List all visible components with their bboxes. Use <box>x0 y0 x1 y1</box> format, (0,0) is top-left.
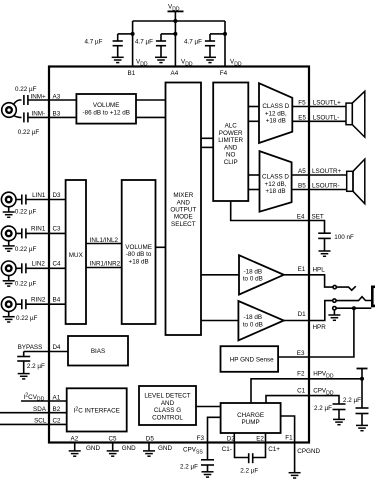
svg-text:SDA: SDA <box>33 406 47 413</box>
svg-text:E5: E5 <box>298 114 306 121</box>
connector J5 RIN2 jack inner <box>6 301 12 307</box>
svg-text:F2: F2 <box>297 370 305 377</box>
ground at LIN2 <box>3 275 15 286</box>
svg-text:A1: A1 <box>53 394 61 401</box>
svg-text:+12 dB,: +12 dB, <box>265 181 287 188</box>
wire CHARGE PUMP to pin E2 <box>265 433 267 443</box>
wire SDA / pin B2 <box>0 412 67 414</box>
ground at LIN1 <box>3 207 15 218</box>
wire MIXER to HP amp R <box>201 320 238 322</box>
svg-text:HP GND Sense: HP GND Sense <box>230 357 274 364</box>
ground at A4 cap <box>155 57 167 62</box>
wire J1 to INM+ cap <box>14 100 22 105</box>
label CLASSD1 text <box>262 103 289 125</box>
svg-text:A3: A3 <box>53 93 61 100</box>
svg-text:MODE: MODE <box>174 214 193 221</box>
wire tip switch <box>336 286 355 290</box>
svg-text:-18 dB: -18 dB <box>244 314 263 321</box>
capacitor 0.22uF RIN1 <box>22 228 26 238</box>
ground at B1 cap <box>112 57 124 62</box>
wire RIN1 / pin C3 <box>16 232 66 234</box>
svg-text:SELECT: SELECT <box>171 221 196 228</box>
amplifier HPR <box>238 301 283 340</box>
svg-text:NO: NO <box>226 152 236 159</box>
wire INL1/INL2 <box>86 243 122 245</box>
svg-text:C3: C3 <box>53 226 62 233</box>
label MIXER text <box>170 192 196 228</box>
wire INM+ / pin A3 <box>28 99 77 101</box>
capacitor 2.2uF CPVSS <box>201 460 214 472</box>
block MIXER <box>166 83 202 336</box>
label CLASSD2 text <box>262 174 289 196</box>
svg-text:C5: C5 <box>109 436 118 443</box>
connector J4 LIN2 jack outer <box>1 261 16 276</box>
wire pin F4 drop <box>224 21 226 67</box>
wire pin B1 drop <box>132 21 134 67</box>
block ALC <box>213 83 248 202</box>
svg-text:-80 dB to: -80 dB to <box>126 251 152 258</box>
label VOLUME1 text <box>82 102 129 117</box>
svg-text:LEVEL DETECT: LEVEL DETECT <box>144 393 190 400</box>
wire ALC to pin E4 SET <box>231 201 309 221</box>
svg-text:4.7 µF: 4.7 µF <box>135 39 153 46</box>
wire ALC to CLASSD2 lower <box>248 189 259 191</box>
ground at bypass cap <box>18 374 30 379</box>
capacitor 100nF <box>318 233 331 251</box>
wire CHARGE PUMP to pin F1 <box>281 416 295 443</box>
contact circle ring <box>333 299 336 302</box>
wire CPVDD external <box>309 396 339 404</box>
ground at C5 <box>107 451 119 456</box>
capacitor 2.2uF CPVDD <box>333 404 346 419</box>
connector J1 INM jack inner <box>6 107 12 113</box>
svg-text:2.2 µF: 2.2 µF <box>240 468 258 475</box>
wire HPR to jack ring contact <box>309 301 333 321</box>
svg-text:LSOUTL-: LSOUTL- <box>313 114 340 121</box>
contact circle sleeve <box>333 307 336 310</box>
svg-text:INL1/INL2: INL1/INL2 <box>90 237 119 244</box>
wire VOLUME2 to MIXER <box>156 246 166 248</box>
junction dot rail center <box>173 19 177 23</box>
label ALC text <box>218 123 243 166</box>
svg-text:0.22 µF: 0.22 µF <box>15 208 37 215</box>
wire sleeve to jack <box>336 307 371 309</box>
svg-text:CHARGE: CHARGE <box>237 412 264 419</box>
label HPL amp text <box>243 269 263 283</box>
capacitor 2.2uF bypass <box>17 352 30 374</box>
block VOLUME2 <box>122 180 156 324</box>
connector J2 LIN1 jack outer <box>1 192 16 207</box>
wire BYPASS / pin D4 <box>24 351 68 353</box>
svg-text:4.7 µF: 4.7 µF <box>85 39 103 46</box>
svg-text:CLASS D: CLASS D <box>262 103 289 110</box>
svg-text:A4: A4 <box>171 70 179 77</box>
svg-text:INM-: INM- <box>32 111 46 118</box>
svg-text:C1+: C1+ <box>268 446 280 453</box>
wire MIXER to ALC lower <box>201 146 213 148</box>
svg-text:GND: GND <box>122 445 136 452</box>
capacitor 0.22uF LIN1 <box>22 195 26 205</box>
svg-text:INR1/INR2: INR1/INR2 <box>90 261 121 268</box>
svg-text:B3: B3 <box>53 111 61 118</box>
svg-text:F4: F4 <box>220 70 228 77</box>
svg-text:HPL: HPL <box>313 267 326 274</box>
svg-text:MUX: MUX <box>69 252 84 259</box>
label CHARGE PUMP text <box>237 412 264 426</box>
ground at CPGND <box>289 473 301 478</box>
wire ALC to CLASSD1 lower <box>248 120 259 122</box>
supply bar HPVDD <box>357 369 368 379</box>
capacitor 2.2uF HPVDD <box>356 379 369 426</box>
wire LIN1 / pin D3 <box>16 199 66 201</box>
wire ALC to CLASSD1 upper <box>248 106 259 108</box>
svg-text:CONTROL: CONTROL <box>152 414 183 421</box>
wire pin C5 ground stub <box>112 443 114 451</box>
svg-text:2.2 µF: 2.2 µF <box>314 405 332 412</box>
svg-text:VOLUME: VOLUME <box>93 102 120 109</box>
wire SET to cap <box>309 221 325 234</box>
svg-text:C2: C2 <box>53 418 62 425</box>
svg-text:100 nF: 100 nF <box>334 234 354 241</box>
svg-text:PUMP: PUMP <box>241 419 259 426</box>
svg-text:VOLUME: VOLUME <box>125 244 152 251</box>
wire pin D5 ground stub <box>148 443 150 451</box>
wire I2CVDD / pin A1 <box>21 400 67 402</box>
wire pin E1 <box>284 274 309 276</box>
label HPR amp text <box>243 314 263 328</box>
svg-text:E2: E2 <box>256 436 264 443</box>
wire HP GND Sense to E3 <box>278 356 309 358</box>
svg-text:F5: F5 <box>298 100 306 107</box>
ground at F4 cap <box>204 57 216 62</box>
wire J1 to INM- cap <box>14 116 22 118</box>
wire CHARGE PUMP to pin F3 <box>208 417 221 442</box>
svg-text:AND: AND <box>224 144 238 151</box>
capacitor 4.7uF at B1 <box>113 34 133 57</box>
wire LEVEL DETECT to CHARGE PUMP <box>196 406 221 408</box>
svg-text:D2: D2 <box>227 436 236 443</box>
svg-text:HPVDD: HPVDD <box>313 370 334 379</box>
ground at RIN2 <box>3 311 15 322</box>
wire MIXER to HP amp L <box>201 274 239 276</box>
svg-text:CPGND: CPGND <box>297 448 320 455</box>
wire pin F2 HPVDD internal <box>251 379 309 403</box>
capacitor 4.7uF at F4 <box>205 34 225 57</box>
svg-text:0.22 µF: 0.22 µF <box>15 86 37 93</box>
svg-text:LIMITER: LIMITER <box>218 137 243 144</box>
svg-text:+18 dB: +18 dB <box>266 118 286 125</box>
svg-text:F1: F1 <box>285 434 293 441</box>
block BIAS <box>68 336 128 366</box>
svg-text:D1: D1 <box>298 311 307 318</box>
capacitor 0.22uF LIN2 <box>22 263 26 273</box>
svg-text:B2: B2 <box>53 406 61 413</box>
svg-text:OUTPUT: OUTPUT <box>170 207 196 214</box>
svg-text:C1-: C1- <box>222 446 232 453</box>
junction dot sleeve return <box>352 306 356 310</box>
wire pin F1 external <box>294 443 296 473</box>
contact circle tip <box>333 285 336 288</box>
svg-text:I2C INTERFACE: I2C INTERFACE <box>74 406 120 414</box>
svg-text:AND: AND <box>161 400 175 407</box>
wire HPL to jack tip contact <box>309 275 333 287</box>
wire ALC to CLASSD2 upper <box>248 174 259 176</box>
wire LIN2 / pin C4 <box>16 267 66 269</box>
chip boundary <box>49 67 309 443</box>
svg-text:CLIP: CLIP <box>224 159 238 166</box>
wire CHARGE PUMP to pin D2 <box>233 433 235 443</box>
ground at sleeve contact <box>328 310 340 320</box>
ground at RIN1 <box>3 240 15 251</box>
wire pin F5 <box>292 106 346 108</box>
svg-text:INM+: INM+ <box>31 93 47 100</box>
svg-text:0.22 µF: 0.22 µF <box>16 315 38 322</box>
svg-text:A5: A5 <box>298 168 306 175</box>
capacitor 0.22uF INM+ <box>24 95 28 105</box>
ground at 100nF <box>319 251 331 256</box>
wire ring switch <box>336 297 371 301</box>
block MUX <box>66 180 86 324</box>
amplifier CLASSD1 trapezoid <box>259 83 292 143</box>
svg-text:RIN1: RIN1 <box>31 226 46 233</box>
ground at CPVDD cap <box>333 419 345 424</box>
wire pin E2 to fly cap <box>253 443 266 458</box>
svg-text:-18 dB: -18 dB <box>244 269 263 276</box>
wire pin E5 <box>292 120 346 122</box>
svg-text:SET: SET <box>312 214 324 221</box>
svg-text:C4: C4 <box>53 261 62 268</box>
svg-text:4.7 µF: 4.7 µF <box>184 39 202 46</box>
capacitor 0.22uF INM- <box>24 112 28 122</box>
connector J3 RIN1 jack inner <box>6 231 12 237</box>
wire HPVDD external <box>309 378 362 380</box>
svg-text:AND: AND <box>177 199 191 206</box>
svg-text:RIN2: RIN2 <box>31 297 46 304</box>
svg-text:GND: GND <box>158 445 172 452</box>
svg-text:+18 dB: +18 dB <box>265 188 285 195</box>
svg-text:CLASS G: CLASS G <box>154 407 181 414</box>
svg-text:LIN2: LIN2 <box>32 261 46 268</box>
svg-text:SCL: SCL <box>34 418 47 425</box>
svg-text:0.22 µF: 0.22 µF <box>18 129 40 136</box>
svg-text:LIN1: LIN1 <box>32 192 46 199</box>
wire RIN2 / pin B4 <box>16 303 66 305</box>
svg-text:CLASS D: CLASS D <box>262 174 289 181</box>
label LEVEL DETECT text <box>144 393 190 422</box>
svg-text:2.2 µF: 2.2 µF <box>27 363 45 370</box>
capacitor 0.22uF RIN2 <box>22 299 26 309</box>
svg-text:B1: B1 <box>128 70 136 77</box>
wire pin B5 <box>292 189 347 191</box>
ground at CPVSS cap <box>202 472 214 477</box>
wire INM- / pin B3 <box>28 116 77 118</box>
svg-text:GND: GND <box>86 445 100 452</box>
headphone jack symbol <box>371 286 375 308</box>
wire jack sleeve to E3 <box>309 308 354 357</box>
label VOLUME2 text <box>125 244 152 266</box>
wire pin A2 ground stub <box>74 443 76 451</box>
svg-text:2.2 µF: 2.2 µF <box>343 397 361 404</box>
wire pin A4 drop <box>174 21 176 67</box>
capacitor 2.2uF fly <box>249 453 253 463</box>
block LEVEL DETECT <box>139 386 196 425</box>
svg-text:E3: E3 <box>297 350 305 357</box>
amplifier HPL <box>239 255 284 294</box>
svg-text:-86 dB to +12 dB: -86 dB to +12 dB <box>82 109 129 116</box>
svg-text:B5: B5 <box>298 183 306 190</box>
svg-text:HPR: HPR <box>313 324 327 331</box>
svg-text:D4: D4 <box>53 344 62 351</box>
svg-text:0.22 µF: 0.22 µF <box>15 246 37 253</box>
svg-text:C1: C1 <box>297 387 306 394</box>
wire pin D2 to fly cap <box>235 443 249 458</box>
ground at HPVDD cap <box>356 425 368 430</box>
junction dot F4 cap tap <box>223 32 227 36</box>
svg-text:+18 dB: +18 dB <box>129 259 149 266</box>
wire SCL / pin C2 <box>0 423 67 425</box>
svg-text:BIAS: BIAS <box>91 348 105 355</box>
node VDD supply symbol <box>168 11 184 21</box>
svg-text:D3: D3 <box>53 192 62 199</box>
svg-text:MIXER: MIXER <box>173 192 193 199</box>
wire MIXER to ALC upper <box>201 137 213 139</box>
svg-text:to 0 dB: to 0 dB <box>243 276 263 283</box>
svg-text:F3: F3 <box>197 435 205 442</box>
speaker right channel <box>347 159 365 204</box>
connector J3 RIN1 jack outer <box>1 226 16 241</box>
block VOLUME1 <box>76 94 136 124</box>
svg-text:E4: E4 <box>297 214 305 221</box>
connector J5 RIN2 jack outer <box>1 297 16 312</box>
ground at A2 <box>69 451 81 456</box>
svg-text:LSOUTR-: LSOUTR- <box>312 183 340 190</box>
svg-text:A2: A2 <box>71 436 79 443</box>
amplifier CLASSD2 trapezoid <box>260 151 292 212</box>
svg-text:LSOUTR+: LSOUTR+ <box>312 168 342 175</box>
svg-text:POWER: POWER <box>219 130 243 137</box>
block HP GND Sense <box>221 346 279 372</box>
wire pin C1 CPVDD internal <box>266 396 309 403</box>
connector J1 INM jack outer <box>2 103 17 118</box>
connector J4 LIN2 jack inner <box>6 266 12 272</box>
junction dot A4 cap tap <box>173 32 177 36</box>
wire VOLUME1 to MIXER upper <box>136 99 166 101</box>
wire VDD rail <box>133 20 225 22</box>
wire VOLUME1 to MIXER lower <box>136 116 166 118</box>
svg-text:BYPASS: BYPASS <box>18 344 43 351</box>
svg-text:2.2 µF: 2.2 µF <box>180 463 198 470</box>
svg-text:ALC: ALC <box>225 123 238 130</box>
ground at D5 <box>143 451 155 456</box>
block I2C INTERFACE <box>67 388 127 431</box>
svg-text:0.22 µF: 0.22 µF <box>15 281 37 288</box>
junction dot HPVDD <box>360 377 364 381</box>
svg-text:D5: D5 <box>146 436 155 443</box>
svg-text:E1: E1 <box>298 266 306 273</box>
junction dot B1 cap tap <box>131 32 135 36</box>
svg-text:to 0 dB: to 0 dB <box>243 321 263 328</box>
wire pin D1 <box>284 320 309 322</box>
svg-text:+12 dB,: +12 dB, <box>265 110 287 117</box>
wire INR1/INR2 <box>86 267 122 269</box>
connector J2 LIN1 jack inner <box>6 197 12 203</box>
block CHARGE PUMP <box>221 403 281 433</box>
svg-text:B4: B4 <box>53 297 61 304</box>
wire pin F3 external <box>207 443 209 460</box>
wire pin A5 <box>292 174 347 176</box>
speaker left channel <box>346 91 365 137</box>
svg-text:LSOUTL+: LSOUTL+ <box>313 100 341 107</box>
svg-text:CPVSS: CPVSS <box>183 447 203 456</box>
capacitor 4.7uF at A4 <box>156 34 176 57</box>
